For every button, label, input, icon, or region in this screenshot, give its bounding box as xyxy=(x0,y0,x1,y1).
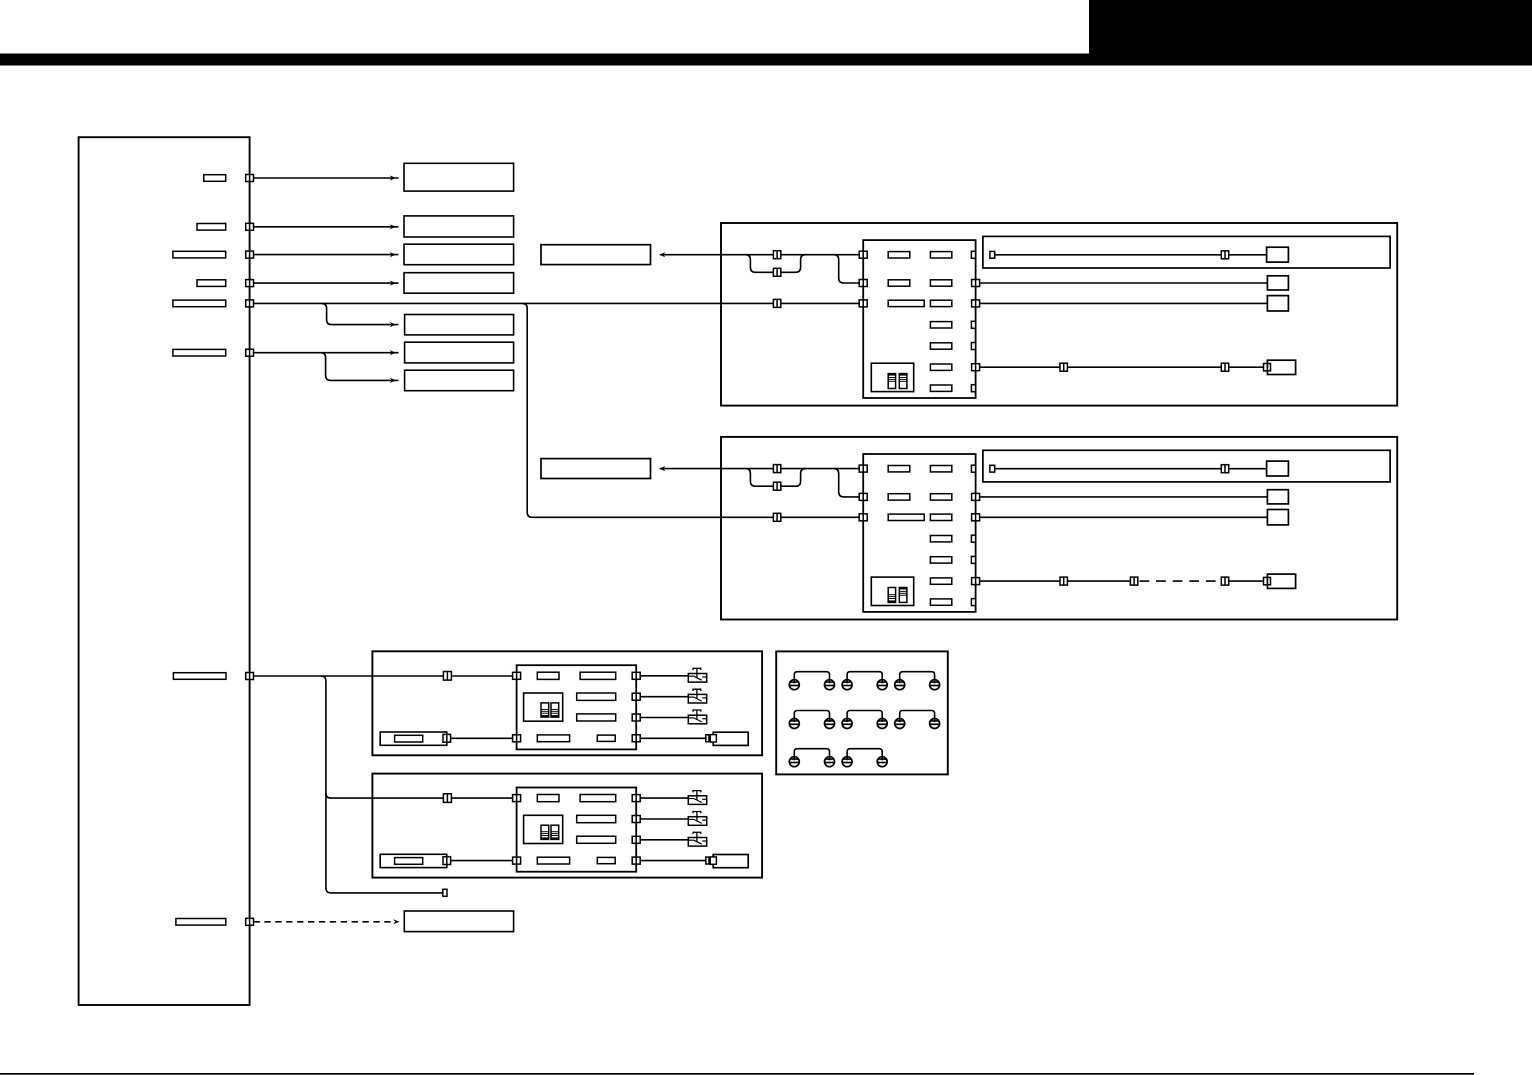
terminal r3p2 right xyxy=(877,757,887,767)
I4 left connector r4 xyxy=(513,857,521,864)
U2 wire pin6 solid a xyxy=(980,580,1137,582)
block B4 xyxy=(404,273,514,294)
I2 left connector 1 xyxy=(859,465,867,472)
U4 wire r4 xyxy=(640,860,706,862)
terminal r3p1 right xyxy=(825,757,835,767)
I1 right stub r7 xyxy=(971,385,975,392)
U4 r4 terminal bar xyxy=(706,857,709,864)
main unit pin label 7 xyxy=(173,673,226,680)
U2 wire pin3 xyxy=(980,516,1268,518)
I2 right connector r3 xyxy=(972,514,980,521)
I3 switch sub-box xyxy=(524,693,563,721)
U2 wire pin6 solid b xyxy=(1228,580,1266,582)
switch symbol S31 xyxy=(688,674,706,683)
outer unit box U4 xyxy=(372,774,762,878)
block B7 xyxy=(405,370,514,391)
U4 wire to switch 1 xyxy=(640,797,688,799)
U3 wire to switch 3 xyxy=(640,717,688,719)
long harness box H1 xyxy=(983,236,1390,268)
wire F4 to I4 xyxy=(451,860,513,862)
I3 right connector r2 xyxy=(632,693,640,700)
main unit pin label 4 xyxy=(197,280,226,287)
I4 pin label r4 left xyxy=(537,857,569,864)
I2 right connector r2 xyxy=(972,493,980,500)
inline connector U2 loop xyxy=(773,482,780,490)
wire row8 (dashed) xyxy=(254,921,395,923)
I4 dip switch b xyxy=(551,825,559,839)
terminal r1p3 right xyxy=(930,680,940,690)
wire parallel loop U2 xyxy=(745,469,805,487)
terminal r2p2 left xyxy=(842,719,852,729)
terminal r2p3 left xyxy=(895,719,905,729)
I3 pin label r3 xyxy=(577,714,616,721)
I2 dip switch b xyxy=(899,588,907,603)
terminal r3p1 left xyxy=(789,757,799,767)
H2 wire xyxy=(995,468,1267,470)
I1 pin label col2 r2 xyxy=(930,280,951,286)
main unit edge connector 4 xyxy=(246,280,254,287)
H1 wire xyxy=(995,254,1267,256)
I1 right connector r3 xyxy=(972,300,980,307)
main unit pin label 8 xyxy=(176,919,226,926)
I1 dip switch b xyxy=(899,374,907,389)
I2 pin label col2 r1 xyxy=(930,466,951,472)
I3 pin label r4 left xyxy=(537,735,569,742)
I1 pin label col2 r6 xyxy=(930,364,951,370)
inline connector U1 loop xyxy=(773,268,780,276)
wire branch to pin2 U1 xyxy=(834,255,864,283)
feed box F3 connector xyxy=(443,734,451,742)
I2 pin label col2 r4 xyxy=(930,536,951,542)
main unit pin label 2 xyxy=(197,224,226,231)
I2 right stub r5 xyxy=(971,556,975,563)
I1 pin label col2 r4 xyxy=(930,322,951,328)
I1 pin label col2 r1 xyxy=(930,252,951,258)
I4 pin label r4 right xyxy=(597,857,615,863)
I3 left connector r1 xyxy=(513,672,521,679)
wire row7 tail to stub xyxy=(326,888,443,893)
U2 wire pin6 dashed xyxy=(1140,580,1222,582)
row A inline connector U3 xyxy=(443,672,451,681)
U2 pin6 end terminal xyxy=(1264,577,1271,584)
main unit pin label 5 xyxy=(173,300,226,307)
wire row7 vertical drop xyxy=(321,676,326,888)
U3 wire to switch 1 xyxy=(640,675,688,677)
U2 end box pin2 xyxy=(1267,490,1288,504)
terminal pair link r1p1 xyxy=(794,672,829,680)
arrowhead B5 xyxy=(390,322,396,327)
main unit pin label 1 xyxy=(204,175,226,182)
arrowhead into M2 xyxy=(659,466,665,471)
main unit edge connector 7 xyxy=(246,673,254,680)
I2 pin label col2 r7 xyxy=(930,599,951,605)
I3 right connector r3 xyxy=(632,714,640,721)
terminal pair link r1p2 xyxy=(847,672,882,680)
block B3 xyxy=(404,244,514,265)
U2 pin6 inline connector b xyxy=(1130,577,1137,585)
U1 pin6 inline connector a xyxy=(1060,363,1067,371)
inner module box I3 xyxy=(517,665,637,749)
outer unit box U1 xyxy=(721,223,1397,406)
terminal r1p3 left xyxy=(895,680,905,690)
switch symbol S33 xyxy=(688,715,706,724)
arrowhead row1 xyxy=(390,175,396,180)
U4 wire to switch 3 xyxy=(640,839,688,841)
H1 inline connector xyxy=(1221,251,1228,259)
terminal r1p2 right xyxy=(877,680,887,690)
switch symbol S43 xyxy=(688,838,706,847)
I2 left connector 3 xyxy=(859,514,867,521)
arrowhead row3 xyxy=(390,252,396,257)
switch symbol S32 xyxy=(688,694,706,703)
I1 right connector r2 xyxy=(972,280,980,287)
U1 wire pin3 xyxy=(980,302,1268,304)
long harness box H2 xyxy=(983,450,1390,482)
U3 r4 end box terminal xyxy=(710,735,716,742)
arrowhead into M1 xyxy=(659,252,665,257)
main unit edge connector 5 xyxy=(246,300,254,307)
feed box F4 outer xyxy=(380,854,447,867)
U1 wire pin6 xyxy=(980,366,1266,368)
wire F3 to I3 xyxy=(451,737,513,739)
I3 pin label r4 right xyxy=(597,735,615,741)
I2 pin label col1 r3 (wide) xyxy=(888,514,924,520)
arrowhead row4 xyxy=(390,281,396,286)
I1 dip switch a xyxy=(888,374,895,389)
wire M1 feed xyxy=(660,254,863,256)
terminal r2p2 right xyxy=(877,719,887,729)
U2 wire pin2 xyxy=(980,496,1268,498)
I3 dip switch a xyxy=(541,703,549,717)
inner module box I1 xyxy=(863,240,975,398)
I4 left connector r1 xyxy=(513,795,521,802)
U4 wire to switch 2 xyxy=(640,818,688,820)
U2 pin6 end box xyxy=(1267,574,1295,588)
terminal pair link r3p1 xyxy=(794,749,829,757)
I1 left connector 2 xyxy=(859,280,867,287)
feed box F3 label xyxy=(395,735,423,742)
terminal pair link r2p3 xyxy=(900,711,935,719)
main unit edge connector 8 xyxy=(246,918,254,925)
I2 right stub r4 xyxy=(971,535,975,542)
I2 pin label col2 r3 xyxy=(930,514,951,520)
I2 right connector r6 xyxy=(972,578,980,585)
H1 start terminal xyxy=(990,251,995,258)
U1 pin6 inline connector b xyxy=(1221,363,1228,371)
terminal pair link r1p3 xyxy=(900,672,935,680)
feed box F4 connector xyxy=(443,857,451,865)
wire M2 feed xyxy=(660,468,863,470)
arrowhead B8 xyxy=(393,919,399,924)
wire row5 trunk xyxy=(254,302,864,304)
terminal r1p2 left xyxy=(842,680,852,690)
H1 end box xyxy=(1267,247,1289,262)
terminal r2p1 left xyxy=(789,719,799,729)
H2 end box xyxy=(1267,461,1289,476)
I4 pin label r2 xyxy=(577,815,616,822)
main unit block (left tall box) xyxy=(79,137,250,1005)
outer unit box U2 xyxy=(721,437,1397,620)
U1 pin6 end terminal xyxy=(1264,364,1271,371)
U1 end box pin2 xyxy=(1267,276,1288,290)
I1 left connector 1 xyxy=(859,251,867,258)
terminal pair link r2p2 xyxy=(847,711,882,719)
wire parallel loop U1 xyxy=(745,255,805,273)
I2 right stub r7 xyxy=(971,599,975,606)
I2 left connector 2 xyxy=(859,493,867,500)
U3 r4 terminal bar xyxy=(706,735,709,742)
block B2 xyxy=(404,216,514,237)
U2 pin6 inline connector a xyxy=(1060,577,1067,585)
block B1 xyxy=(404,163,514,191)
terminal r1p1 right xyxy=(825,680,835,690)
I1 pin label col1 r2 xyxy=(888,280,910,286)
I2 switch sub-box xyxy=(871,577,913,605)
I1 pin label col2 r3 xyxy=(930,300,951,306)
I4 switch sub-box xyxy=(524,815,563,843)
inline connector U1 top xyxy=(773,251,780,259)
block B6 xyxy=(405,342,514,363)
terminal r2p1 right xyxy=(825,719,835,729)
wire row5 drop to section2 xyxy=(522,303,863,517)
terminal pair link r3p2 xyxy=(847,749,882,757)
main unit edge connector 2 xyxy=(246,223,254,230)
I2 right stub r1 xyxy=(971,465,975,472)
I1 right stub r1 xyxy=(971,251,975,258)
inline connector section2 row3 xyxy=(773,513,780,521)
terminal pair link r2p1 xyxy=(794,711,829,719)
terminal r3p2 left xyxy=(842,757,852,767)
I4 right connector r4 xyxy=(632,857,640,864)
block B5 xyxy=(405,315,514,335)
I4 right connector r2 xyxy=(632,816,640,823)
I1 right stub r4 xyxy=(971,321,975,328)
I1 right stub r5 xyxy=(971,343,975,350)
wire row4 xyxy=(254,282,399,284)
U3 wire to switch 2 xyxy=(640,696,688,698)
receiver box M2 xyxy=(541,459,651,479)
receiver box M1 xyxy=(541,245,651,265)
main unit edge connector 1 xyxy=(246,175,254,182)
I3 pin label r1 left xyxy=(537,672,559,679)
H2 start terminal xyxy=(990,465,995,472)
U4 r4 end box terminal xyxy=(710,857,716,864)
wire row5 branch to B5 xyxy=(322,303,399,324)
outer unit box U3 xyxy=(372,651,762,755)
arrowhead B6 xyxy=(390,350,396,355)
arrowhead row2 xyxy=(390,224,396,229)
I1 pin label col1 r3 (wide) xyxy=(888,300,924,306)
terminal grid box xyxy=(776,651,948,774)
header black title block (top right) xyxy=(1089,0,1532,60)
I2 pin label col2 r6 xyxy=(930,578,951,584)
header black rule bar xyxy=(0,54,1532,66)
U3 r4 end box xyxy=(713,732,748,745)
switch symbol S41 xyxy=(688,796,706,805)
I4 right connector r3 xyxy=(632,836,640,843)
inner module box I4 xyxy=(517,788,637,872)
arrowhead B7 xyxy=(390,378,396,383)
I3 right connector r1 xyxy=(632,672,640,679)
feed box F4 label xyxy=(395,858,423,865)
inner module box I2 xyxy=(863,454,975,612)
I1 right connector r6 xyxy=(972,364,980,371)
U1 wire pin2 xyxy=(980,282,1268,284)
block B8 xyxy=(404,911,513,932)
wire row3 xyxy=(254,254,399,256)
I2 pin label col1 r1 xyxy=(888,466,910,472)
feed box F3 outer xyxy=(380,732,447,745)
terminal r1p1 left xyxy=(789,680,799,690)
main unit pin label 3 xyxy=(173,251,226,258)
I4 pin label r3 xyxy=(577,836,616,843)
I3 pin label r2 xyxy=(577,693,616,700)
U2 end box pin3 xyxy=(1267,510,1288,525)
inline connector row5 xyxy=(773,299,780,307)
I3 pin label r1 right xyxy=(580,672,616,679)
I4 right connector r1 xyxy=(632,795,640,802)
I4 pin label r1 right xyxy=(580,795,616,802)
I2 dip switch a xyxy=(888,588,895,603)
main unit edge connector 6 xyxy=(246,349,254,356)
terminal r2p3 right xyxy=(930,719,940,729)
wire row1 xyxy=(254,177,399,179)
U1 end box pin3 xyxy=(1267,296,1288,311)
I1 pin label col2 r7 xyxy=(930,385,951,391)
I2 pin label col1 r2 xyxy=(888,494,910,500)
wire row7 branch to lower section B xyxy=(326,793,513,798)
wire row7 trunk xyxy=(254,675,513,677)
I4 dip switch a xyxy=(541,825,549,839)
I1 pin label col1 r1 xyxy=(888,252,910,258)
stub terminal xyxy=(443,889,447,896)
U1 pin6 end box xyxy=(1267,360,1295,374)
I3 dip switch b xyxy=(551,703,559,717)
I1 left connector 3 xyxy=(859,300,867,307)
footer rule xyxy=(0,1073,1474,1075)
row A inline connector U4 xyxy=(443,794,451,803)
wire row6 xyxy=(254,352,399,354)
inline connector U2 top xyxy=(773,465,780,473)
switch symbol S42 xyxy=(688,817,706,826)
I3 left connector r4 xyxy=(513,735,521,742)
wire row6 branch to B7 xyxy=(321,353,399,381)
U2 pin6 inline connector c xyxy=(1221,577,1228,585)
main unit pin label 6 xyxy=(173,349,226,356)
wire row2 xyxy=(254,226,399,228)
I1 pin label col2 r5 xyxy=(930,343,951,349)
wire branch to pin2 U2 xyxy=(834,469,864,497)
U4 r4 end box xyxy=(713,855,748,868)
I1 switch sub-box xyxy=(871,363,913,391)
U3 wire r4 xyxy=(640,737,706,739)
I2 pin label col2 r2 xyxy=(930,494,951,500)
I3 right connector r4 xyxy=(632,735,640,742)
I2 pin label col2 r5 xyxy=(930,557,951,563)
main unit edge connector 3 xyxy=(246,251,254,258)
H2 inline connector xyxy=(1221,465,1228,473)
I4 pin label r1 left xyxy=(537,795,559,802)
